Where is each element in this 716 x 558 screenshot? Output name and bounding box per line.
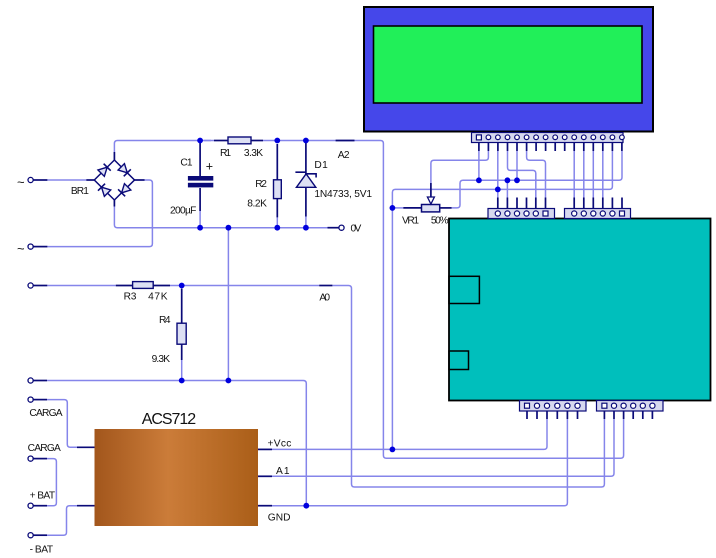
Arduino h3 stubs — [526, 411, 528, 419]
svg-text:C1: C1 — [180, 158, 193, 169]
node D1 top — [303, 138, 309, 144]
LCD pin header — [472, 133, 625, 143]
wire: A0 net: R3/R4 junction to h4 pin1 — [182, 285, 320, 287]
node rail A pin5 — [514, 177, 520, 183]
wire: 0V rail descender to bottom rail — [227, 228, 229, 381]
node R2 top — [274, 138, 280, 144]
terminal AC bottom — [28, 244, 33, 249]
node +Vcc junction — [390, 447, 396, 453]
A2 net tag — [336, 140, 355, 142]
svg-text:~: ~ — [17, 175, 25, 190]
svg-text:8.2K: 8.2K — [247, 199, 267, 210]
wire: VR1 wiper up to LCD pin2 — [431, 151, 489, 183]
svg-text:CARGA: CARGA — [28, 443, 61, 454]
terminal 0V — [339, 225, 344, 230]
diode BR1 top-right — [118, 163, 131, 176]
wire: VR1 left lead to +5V junction — [392, 207, 403, 209]
wire: GND to h3 pin5 — [272, 419, 567, 506]
wire: top rail from bridge to A2 corner — [47, 141, 624, 536]
terminal R3 input — [28, 283, 33, 288]
wire: CARGA1 terminal to ACS712 pin1 — [47, 400, 77, 448]
svg-text:- BAT: - BAT — [30, 545, 53, 556]
wire: 0V rail — [114, 207, 327, 228]
wire: A2 vertical + A2 horizontal to h4 pin3 — [355, 141, 624, 459]
terminal CARGA1 — [28, 397, 33, 402]
svg-text:R3: R3 — [124, 292, 137, 303]
A0 net tag — [319, 285, 332, 287]
wire: bridge right vertex down to AC bottom terminal — [47, 180, 152, 247]
node bottom rail descender — [226, 378, 232, 384]
wire: LCD pin3 through rail B to h1 pin1 — [497, 151, 499, 198]
svg-text:BR1: BR1 — [71, 186, 89, 197]
resistor R2 — [274, 180, 282, 199]
capacitor C1 — [188, 176, 213, 187]
svg-text:ACS712: ACS712 — [142, 411, 196, 428]
ACS712 block — [95, 429, 259, 526]
D1 leads — [305, 143, 307, 174]
wire: LCD pins 11-14 to h2 pins 1-4 — [573, 151, 575, 198]
terminal -BAT — [28, 533, 33, 538]
wire: C1 bottom light segment — [199, 211, 201, 228]
Arduino h1 stubs — [497, 198, 499, 209]
node rail A h1pin2 — [505, 177, 511, 183]
resistor R4 — [177, 323, 186, 344]
wire: R3 input — [47, 285, 116, 287]
Arduino power notch — [449, 351, 469, 370]
terminal bottom rail — [28, 378, 33, 383]
wire: CARGA2/+BAT bracket — [47, 459, 56, 506]
wire: D1 bottom light segment — [305, 217, 307, 228]
node D1 bottom — [303, 225, 309, 231]
wire: LCD pin1 to rail A dot — [478, 151, 480, 180]
R1 leads — [214, 140, 228, 142]
Arduino USB notch — [449, 276, 479, 303]
wire: R2 bottom light segment — [276, 217, 278, 227]
bridge rectifier BR1 — [94, 160, 134, 200]
svg-text:+Vcc: +Vcc — [268, 439, 292, 450]
wire: LCD pin4 jog to h1 pin5 — [508, 151, 536, 198]
R2 leads — [276, 144, 278, 180]
node VR1 left junction — [390, 205, 396, 211]
wire: LCD pin5 to rail A dot — [516, 151, 518, 180]
svg-text:D1: D1 — [314, 160, 328, 171]
resistor R1 — [228, 137, 251, 144]
wire: rail A dot down to h1 pin2 — [506, 180, 508, 197]
LCD pin stubs — [478, 143, 480, 152]
VR1 leads — [403, 207, 421, 209]
diode BR1 top-left — [98, 164, 111, 177]
Arduino h2 stubs — [573, 198, 575, 209]
potentiometer VR1 — [422, 197, 440, 212]
Arduino header h4 (bottom right) — [597, 401, 664, 412]
zener diode D1 — [295, 172, 316, 187]
node GND junction — [303, 503, 309, 509]
svg-text:1N4733, 5V1: 1N4733, 5V1 — [314, 189, 372, 200]
svg-text:47K: 47K — [148, 292, 168, 303]
node 0V descender — [226, 225, 232, 231]
svg-text:R1: R1 — [220, 148, 231, 159]
node rail B pin3 — [495, 187, 501, 193]
node C1 bottom — [197, 225, 203, 231]
node C1 top — [197, 138, 203, 144]
wire: A1 to h4 pin2 — [272, 419, 614, 476]
wire: bottom rail to GND junction — [47, 381, 306, 506]
svg-text:3.3K: 3.3K — [244, 148, 263, 159]
diode BR1 bottom-left — [98, 184, 111, 197]
wire: -BAT up to ACS712 pin2 — [47, 506, 77, 536]
terminal +BAT — [28, 503, 33, 508]
Arduino header h2 (top right) — [565, 209, 631, 219]
svg-text:R2: R2 — [255, 179, 267, 190]
C1 leads — [199, 143, 201, 176]
node R2 bottom — [274, 225, 280, 231]
resistor R3 — [133, 282, 154, 289]
terminal AC top — [28, 177, 33, 182]
node R3/R4 junction — [179, 283, 185, 289]
terminal CARGA2 — [28, 456, 33, 461]
svg-text:9.3K: 9.3K — [152, 354, 171, 365]
svg-text:A0: A0 — [319, 292, 330, 303]
svg-text:50%: 50% — [431, 215, 449, 226]
svg-text:GND: GND — [268, 513, 291, 524]
node R4 bottom — [179, 378, 185, 384]
svg-text:~: ~ — [17, 241, 25, 256]
svg-text:0V: 0V — [351, 223, 362, 234]
svg-text:A1: A1 — [276, 466, 290, 477]
0V terminal stub — [328, 227, 339, 229]
svg-text:200µF: 200µF — [170, 206, 196, 217]
wire: LCD pin6 jog to h1 pin6 — [527, 151, 546, 198]
Arduino header h1 (top left) — [488, 209, 555, 219]
svg-text:A2: A2 — [338, 150, 350, 161]
svg-text:CARGA: CARGA — [29, 408, 62, 419]
node rail A pin1 — [476, 177, 482, 183]
wire: R4 bottom to rail — [181, 360, 183, 381]
svg-text:+ BAT: + BAT — [30, 491, 55, 502]
bridge leads — [86, 179, 94, 181]
R4 leads — [181, 289, 183, 324]
wire: rail A: VR1 right riser, rail A, pin16 riser — [452, 151, 622, 208]
diode BR1 bottom-right — [118, 183, 131, 196]
svg-text:R4: R4 — [159, 315, 171, 326]
LCD screen — [374, 26, 643, 103]
svg-text:+: + — [206, 160, 213, 174]
wire: R1 left light segment — [204, 140, 214, 142]
svg-text:VR1: VR1 — [402, 215, 419, 226]
R3 leads — [116, 285, 133, 287]
terminal circles — [28, 177, 344, 537]
dark component leads/stubs — [33, 141, 652, 536]
Arduino header h3 (bottom left) — [520, 401, 587, 412]
Arduino board (teal) — [449, 219, 711, 401]
terminal stubs left column — [33, 179, 47, 181]
wire: +Vcc to h3 pin3 — [272, 419, 547, 449]
ACS712 pins — [77, 446, 95, 448]
wire: AC top terminal to bridge — [47, 179, 86, 181]
wire: rail B +5V net: pin15 riser, rail B, vertical to +Vcc junction — [392, 151, 612, 449]
LCD module body — [364, 7, 653, 132]
Arduino h4 stubs — [603, 411, 605, 419]
